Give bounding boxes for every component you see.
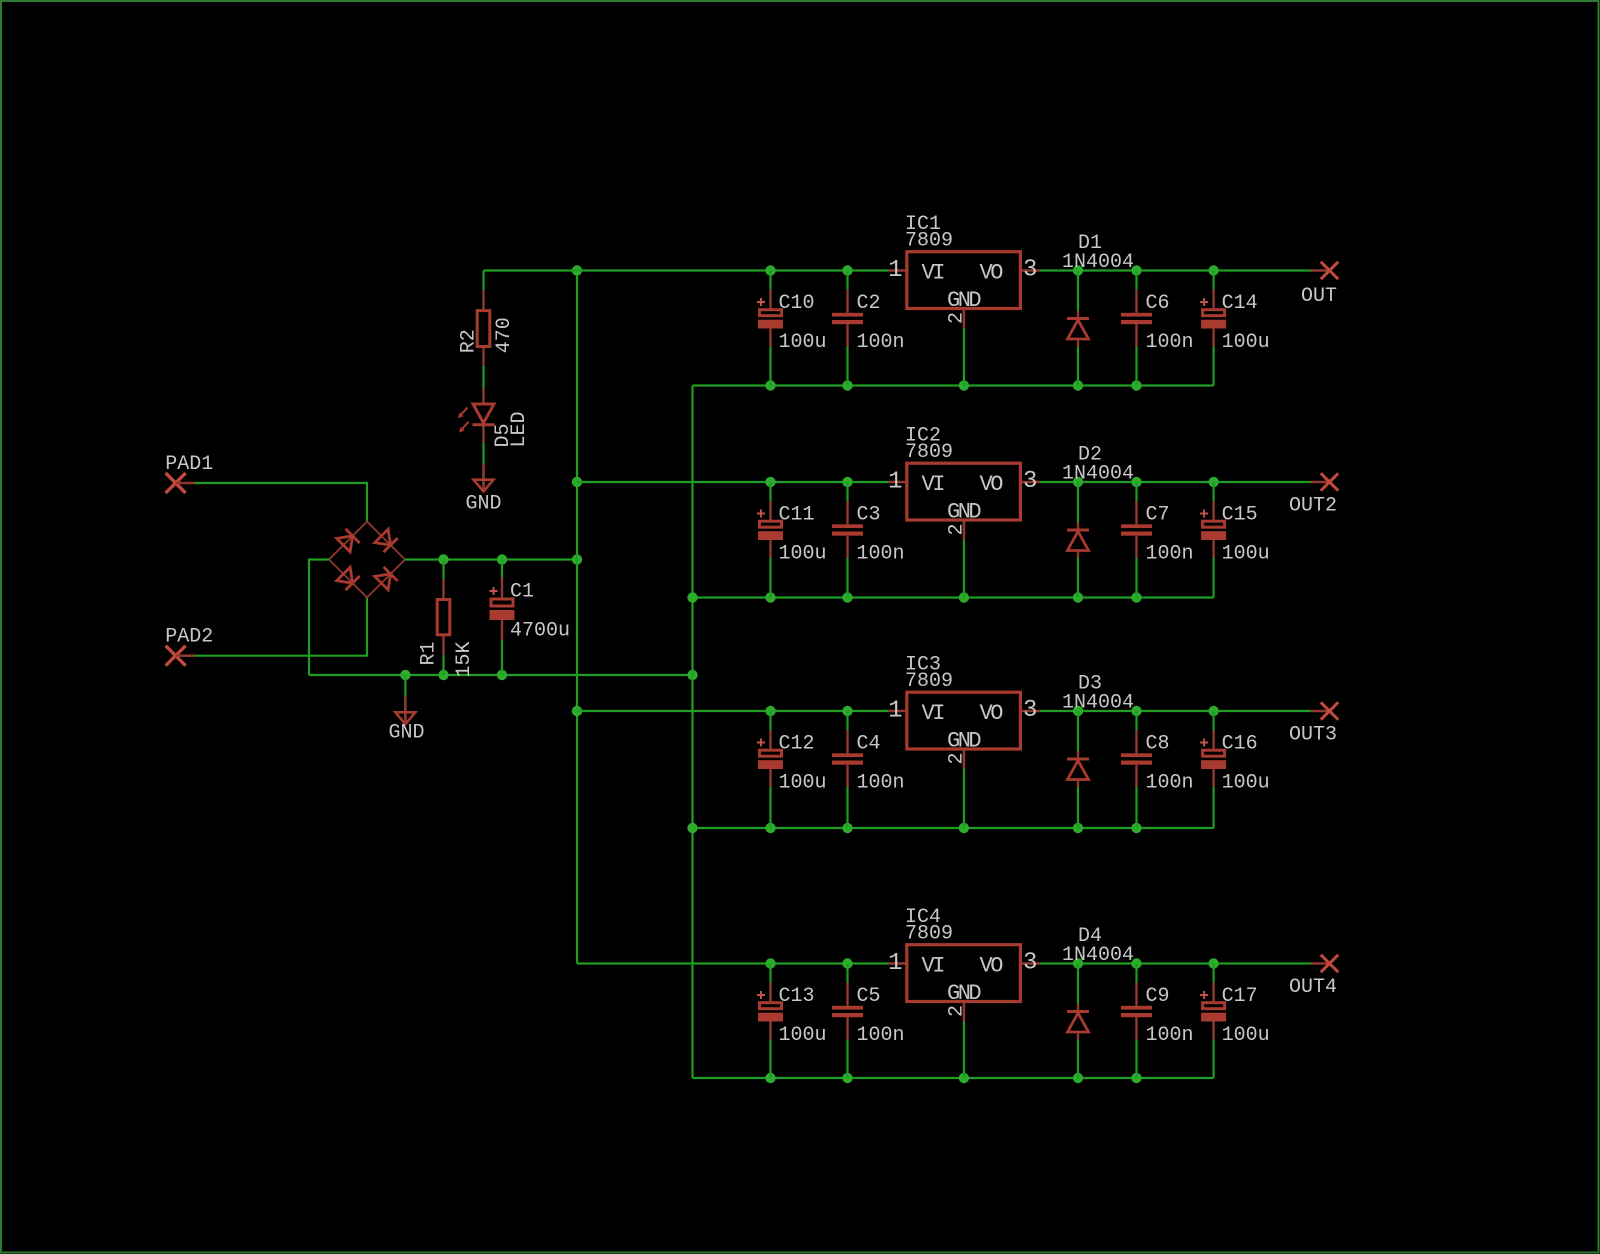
capacitor C9	[1121, 964, 1194, 1079]
svg-text:100u: 100u	[779, 331, 827, 354]
LED D5	[458, 389, 531, 448]
pad OUT4	[1289, 955, 1338, 999]
svg-text:2: 2	[946, 752, 969, 764]
wire	[195, 598, 368, 656]
junction	[842, 706, 852, 716]
svg-text:VI: VI	[922, 261, 945, 286]
svg-text:100n: 100n	[1146, 331, 1194, 354]
capacitor C14	[1200, 271, 1270, 386]
svg-text:7809: 7809	[905, 441, 953, 464]
svg-text:VO: VO	[980, 261, 1004, 286]
bridge rectifier	[329, 522, 405, 598]
junction	[1073, 706, 1083, 716]
capacitor C15	[1200, 482, 1270, 598]
diode D4 1N4004	[1062, 925, 1134, 967]
junction	[959, 380, 969, 390]
svg-text:R2: R2	[458, 329, 481, 353]
junction	[765, 265, 775, 275]
junction	[842, 823, 852, 833]
junction	[1131, 477, 1141, 487]
junction	[1131, 265, 1141, 275]
svg-text:1N4004: 1N4004	[1062, 944, 1134, 967]
wire	[693, 596, 1214, 598]
wire	[1040, 710, 1311, 712]
junction	[1073, 1073, 1083, 1083]
svg-text:4700u: 4700u	[510, 620, 570, 643]
svg-text:7809: 7809	[905, 923, 953, 946]
capacitor C8	[1121, 711, 1194, 828]
junction	[687, 592, 697, 602]
svg-text:GND: GND	[947, 981, 981, 1006]
svg-text:GND: GND	[947, 288, 981, 313]
capacitor C16	[1200, 711, 1270, 828]
diode D1 1N4004	[1062, 232, 1134, 274]
svg-text:C11: C11	[779, 504, 815, 527]
junction	[1131, 958, 1141, 968]
capacitor C4	[832, 711, 905, 828]
junction	[959, 1073, 969, 1083]
wire	[1040, 269, 1311, 271]
svg-text:VO: VO	[980, 472, 1004, 497]
svg-text:C10: C10	[779, 292, 815, 315]
junction	[1208, 958, 1218, 968]
capacitor C6	[1121, 271, 1194, 386]
junction	[1131, 706, 1141, 716]
pad PAD2	[165, 626, 213, 666]
svg-text:100u: 100u	[1222, 772, 1270, 795]
junction	[765, 592, 775, 602]
svg-text:VI: VI	[922, 954, 945, 979]
svg-text:100n: 100n	[857, 543, 905, 566]
junction	[1073, 265, 1083, 275]
capacitor C3	[832, 482, 905, 598]
junction	[687, 670, 697, 680]
junction	[1208, 706, 1218, 716]
svg-text:7809: 7809	[905, 670, 953, 693]
junction	[572, 477, 582, 487]
wire	[404, 675, 406, 696]
junction	[572, 706, 582, 716]
junction	[438, 554, 448, 564]
junction	[842, 592, 852, 602]
svg-text:7809: 7809	[905, 230, 953, 253]
junction	[400, 670, 410, 680]
svg-text:C15: C15	[1222, 504, 1258, 527]
svg-text:1N4004: 1N4004	[1062, 463, 1134, 486]
svg-text:100n: 100n	[857, 1024, 905, 1047]
junction	[842, 1073, 852, 1083]
capacitor C12	[757, 711, 827, 828]
svg-text:C4: C4	[857, 733, 881, 756]
svg-text:GND: GND	[388, 722, 424, 745]
svg-text:OUT2: OUT2	[1289, 495, 1337, 518]
svg-text:100u: 100u	[779, 543, 827, 566]
pad OUT3	[1289, 702, 1338, 746]
wire	[963, 539, 965, 597]
junction	[438, 670, 448, 680]
junction	[1131, 592, 1141, 602]
junction	[1131, 1073, 1141, 1083]
junction	[959, 823, 969, 833]
svg-text:GND: GND	[947, 728, 981, 753]
junction	[572, 265, 582, 275]
svg-text:C6: C6	[1146, 292, 1170, 315]
junction	[1208, 477, 1218, 487]
junction	[765, 706, 775, 716]
svg-text:100u: 100u	[1222, 543, 1270, 566]
wire	[577, 710, 888, 712]
svg-text:2: 2	[946, 312, 969, 324]
capacitor C7	[1121, 482, 1194, 598]
junction	[1073, 958, 1083, 968]
capacitor C11	[757, 482, 827, 598]
wire	[691, 386, 693, 1079]
svg-text:VO: VO	[980, 954, 1004, 979]
svg-text:C5: C5	[857, 985, 881, 1008]
svg-text:C17: C17	[1222, 985, 1258, 1008]
junction	[1131, 380, 1141, 390]
svg-text:3: 3	[1023, 950, 1037, 977]
svg-text:C12: C12	[779, 733, 815, 756]
svg-text:100u: 100u	[1222, 331, 1270, 354]
wire	[482, 271, 484, 291]
svg-text:VI: VI	[922, 701, 945, 726]
svg-text:GND: GND	[947, 499, 981, 524]
junction	[497, 670, 507, 680]
svg-text:3: 3	[1023, 697, 1037, 724]
resistor R1	[418, 560, 476, 678]
capacitor C13	[757, 964, 827, 1079]
junction	[765, 1073, 775, 1083]
diode D3 1N4004	[1062, 673, 1134, 715]
svg-text:1N4004: 1N4004	[1062, 251, 1134, 274]
svg-text:100n: 100n	[857, 331, 905, 354]
svg-text:C7: C7	[1146, 504, 1170, 527]
svg-text:100u: 100u	[1222, 1024, 1270, 1047]
svg-text:C3: C3	[857, 504, 881, 527]
junction	[765, 380, 775, 390]
junction	[765, 958, 775, 968]
wire	[195, 483, 368, 522]
wire	[577, 962, 888, 964]
wire	[693, 1077, 1214, 1079]
svg-text:C16: C16	[1222, 733, 1258, 756]
capacitor C2	[832, 271, 905, 386]
svg-text:C13: C13	[779, 985, 815, 1008]
wire	[1040, 481, 1311, 483]
wire	[482, 442, 484, 464]
wire	[1040, 962, 1311, 964]
wire	[309, 674, 693, 676]
wire	[484, 269, 889, 271]
svg-text:OUT: OUT	[1301, 285, 1337, 308]
svg-text:1: 1	[888, 468, 902, 495]
junction	[497, 554, 507, 564]
junction	[1208, 265, 1218, 275]
svg-text:15K: 15K	[453, 641, 476, 677]
svg-text:C14: C14	[1222, 292, 1258, 315]
svg-text:100u: 100u	[779, 772, 827, 795]
wire	[693, 827, 1214, 829]
svg-text:3: 3	[1023, 468, 1037, 495]
capacitor C5	[832, 964, 905, 1079]
junction	[842, 380, 852, 390]
svg-text:470: 470	[493, 317, 516, 353]
wire	[482, 366, 484, 389]
wire	[309, 560, 329, 676]
regulator IC3 7809	[888, 654, 1040, 769]
svg-text:1: 1	[888, 697, 902, 724]
svg-text:1: 1	[888, 950, 902, 977]
wire	[576, 271, 578, 964]
junction	[1073, 477, 1083, 487]
wire	[963, 328, 965, 386]
svg-text:100n: 100n	[1146, 543, 1194, 566]
capacitor C1	[490, 560, 571, 676]
junction	[1073, 380, 1083, 390]
ground	[388, 696, 424, 744]
wire	[963, 768, 965, 828]
wire	[405, 558, 577, 560]
junction	[959, 592, 969, 602]
junction	[1073, 592, 1083, 602]
junction	[765, 823, 775, 833]
regulator IC2 7809	[888, 425, 1040, 540]
pad PAD1	[165, 453, 213, 493]
junction	[842, 265, 852, 275]
wire	[963, 1021, 965, 1078]
pad OUT	[1301, 262, 1338, 308]
svg-text:100n: 100n	[1146, 772, 1194, 795]
ground	[465, 464, 501, 516]
resistor R2	[458, 290, 516, 366]
svg-text:OUT3: OUT3	[1289, 724, 1337, 747]
svg-text:VO: VO	[980, 701, 1004, 726]
svg-text:C9: C9	[1146, 985, 1170, 1008]
capacitor C10	[757, 271, 827, 386]
svg-text:OUT4: OUT4	[1289, 976, 1337, 999]
junction	[842, 958, 852, 968]
svg-text:100n: 100n	[857, 772, 905, 795]
junction	[1073, 823, 1083, 833]
svg-text:2: 2	[946, 523, 969, 535]
regulator IC1 7809	[888, 213, 1040, 328]
svg-text:PAD2: PAD2	[165, 626, 213, 649]
svg-text:C2: C2	[857, 292, 881, 315]
svg-text:GND: GND	[465, 493, 501, 516]
svg-text:R1: R1	[418, 641, 441, 665]
wire	[693, 384, 1214, 386]
svg-text:3: 3	[1023, 257, 1037, 284]
svg-text:1N4004: 1N4004	[1062, 692, 1134, 715]
pad OUT2	[1289, 473, 1338, 517]
svg-text:VI: VI	[922, 472, 945, 497]
capacitor C17	[1200, 964, 1270, 1079]
svg-text:100u: 100u	[779, 1024, 827, 1047]
svg-text:PAD1: PAD1	[165, 453, 213, 476]
svg-text:LED: LED	[508, 411, 531, 447]
wire	[577, 481, 888, 483]
svg-text:2: 2	[946, 1005, 969, 1017]
junction	[765, 477, 775, 487]
svg-text:C1: C1	[510, 581, 534, 604]
junction	[1131, 823, 1141, 833]
diode D2 1N4004	[1062, 444, 1134, 486]
svg-text:100n: 100n	[1146, 1024, 1194, 1047]
svg-text:1: 1	[888, 257, 902, 284]
junction	[687, 823, 697, 833]
svg-text:C8: C8	[1146, 733, 1170, 756]
junction	[572, 554, 582, 564]
regulator IC4 7809	[888, 906, 1040, 1021]
junction	[842, 477, 852, 487]
